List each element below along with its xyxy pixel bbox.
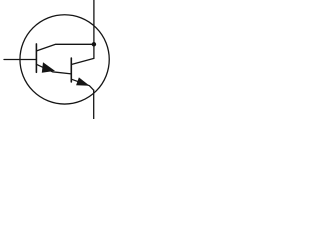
- transistor Q2 collector: [71, 58, 94, 64]
- transistor Q2 base bar: [70, 58, 72, 82]
- transistor Q1 base bar: [35, 44, 37, 72]
- transistor Q1 emitter: [36, 64, 71, 74]
- symbol envelope circle: [20, 15, 109, 104]
- Darlington NPN transistor symbol: [0, 0, 135, 119]
- wire: Q1 collector to junction: [37, 44, 94, 51]
- wire: collector lead (top, vertical): [93, 0, 95, 58]
- transistor Q1 emitter arrow: [42, 62, 55, 72]
- wire: emitter lead (bottom, vertical): [93, 90, 95, 119]
- transistor Q2 emitter arrow: [76, 77, 90, 85]
- wire: base lead (left, horizontal): [4, 59, 36, 61]
- node: collector junction dot: [92, 42, 97, 47]
- transistor Q2 emitter: [71, 79, 93, 90]
